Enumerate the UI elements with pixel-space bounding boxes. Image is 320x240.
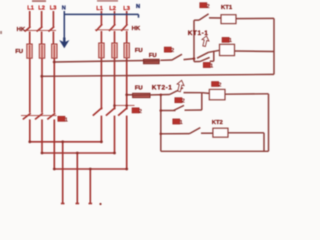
svg-text:1: 1 (180, 120, 184, 126)
svg-text:HK: HK (17, 27, 26, 33)
svg-text:L1: L1 (96, 6, 103, 12)
svg-text:2: 2 (182, 99, 185, 105)
svg-text:1: 1 (210, 63, 214, 69)
svg-text:2: 2 (207, 4, 210, 10)
svg-text:HK: HK (132, 26, 141, 32)
svg-text:2: 2 (218, 82, 221, 88)
svg-text:1: 1 (65, 117, 69, 123)
svg-text:N: N (62, 6, 66, 12)
svg-text:2: 2 (171, 48, 174, 54)
svg-text:1: 1 (229, 38, 233, 44)
svg-text:L2: L2 (109, 6, 116, 12)
svg-text:L2: L2 (38, 6, 45, 12)
svg-text:FU: FU (135, 48, 143, 54)
svg-text:L3: L3 (123, 6, 130, 12)
svg-text:KT2-1: KT2-1 (152, 84, 173, 91)
svg-text:KT2: KT2 (212, 120, 224, 126)
svg-text:FU: FU (135, 86, 143, 92)
svg-text:L1: L1 (27, 6, 34, 12)
svg-text:KT1: KT1 (221, 5, 233, 11)
svg-text:2: 2 (139, 109, 142, 115)
svg-text:KT1-1: KT1-1 (188, 30, 209, 37)
svg-text:FU: FU (149, 53, 157, 59)
svg-text:N: N (136, 4, 140, 10)
svg-text:L3: L3 (50, 6, 57, 12)
svg-text:FU: FU (15, 49, 23, 55)
